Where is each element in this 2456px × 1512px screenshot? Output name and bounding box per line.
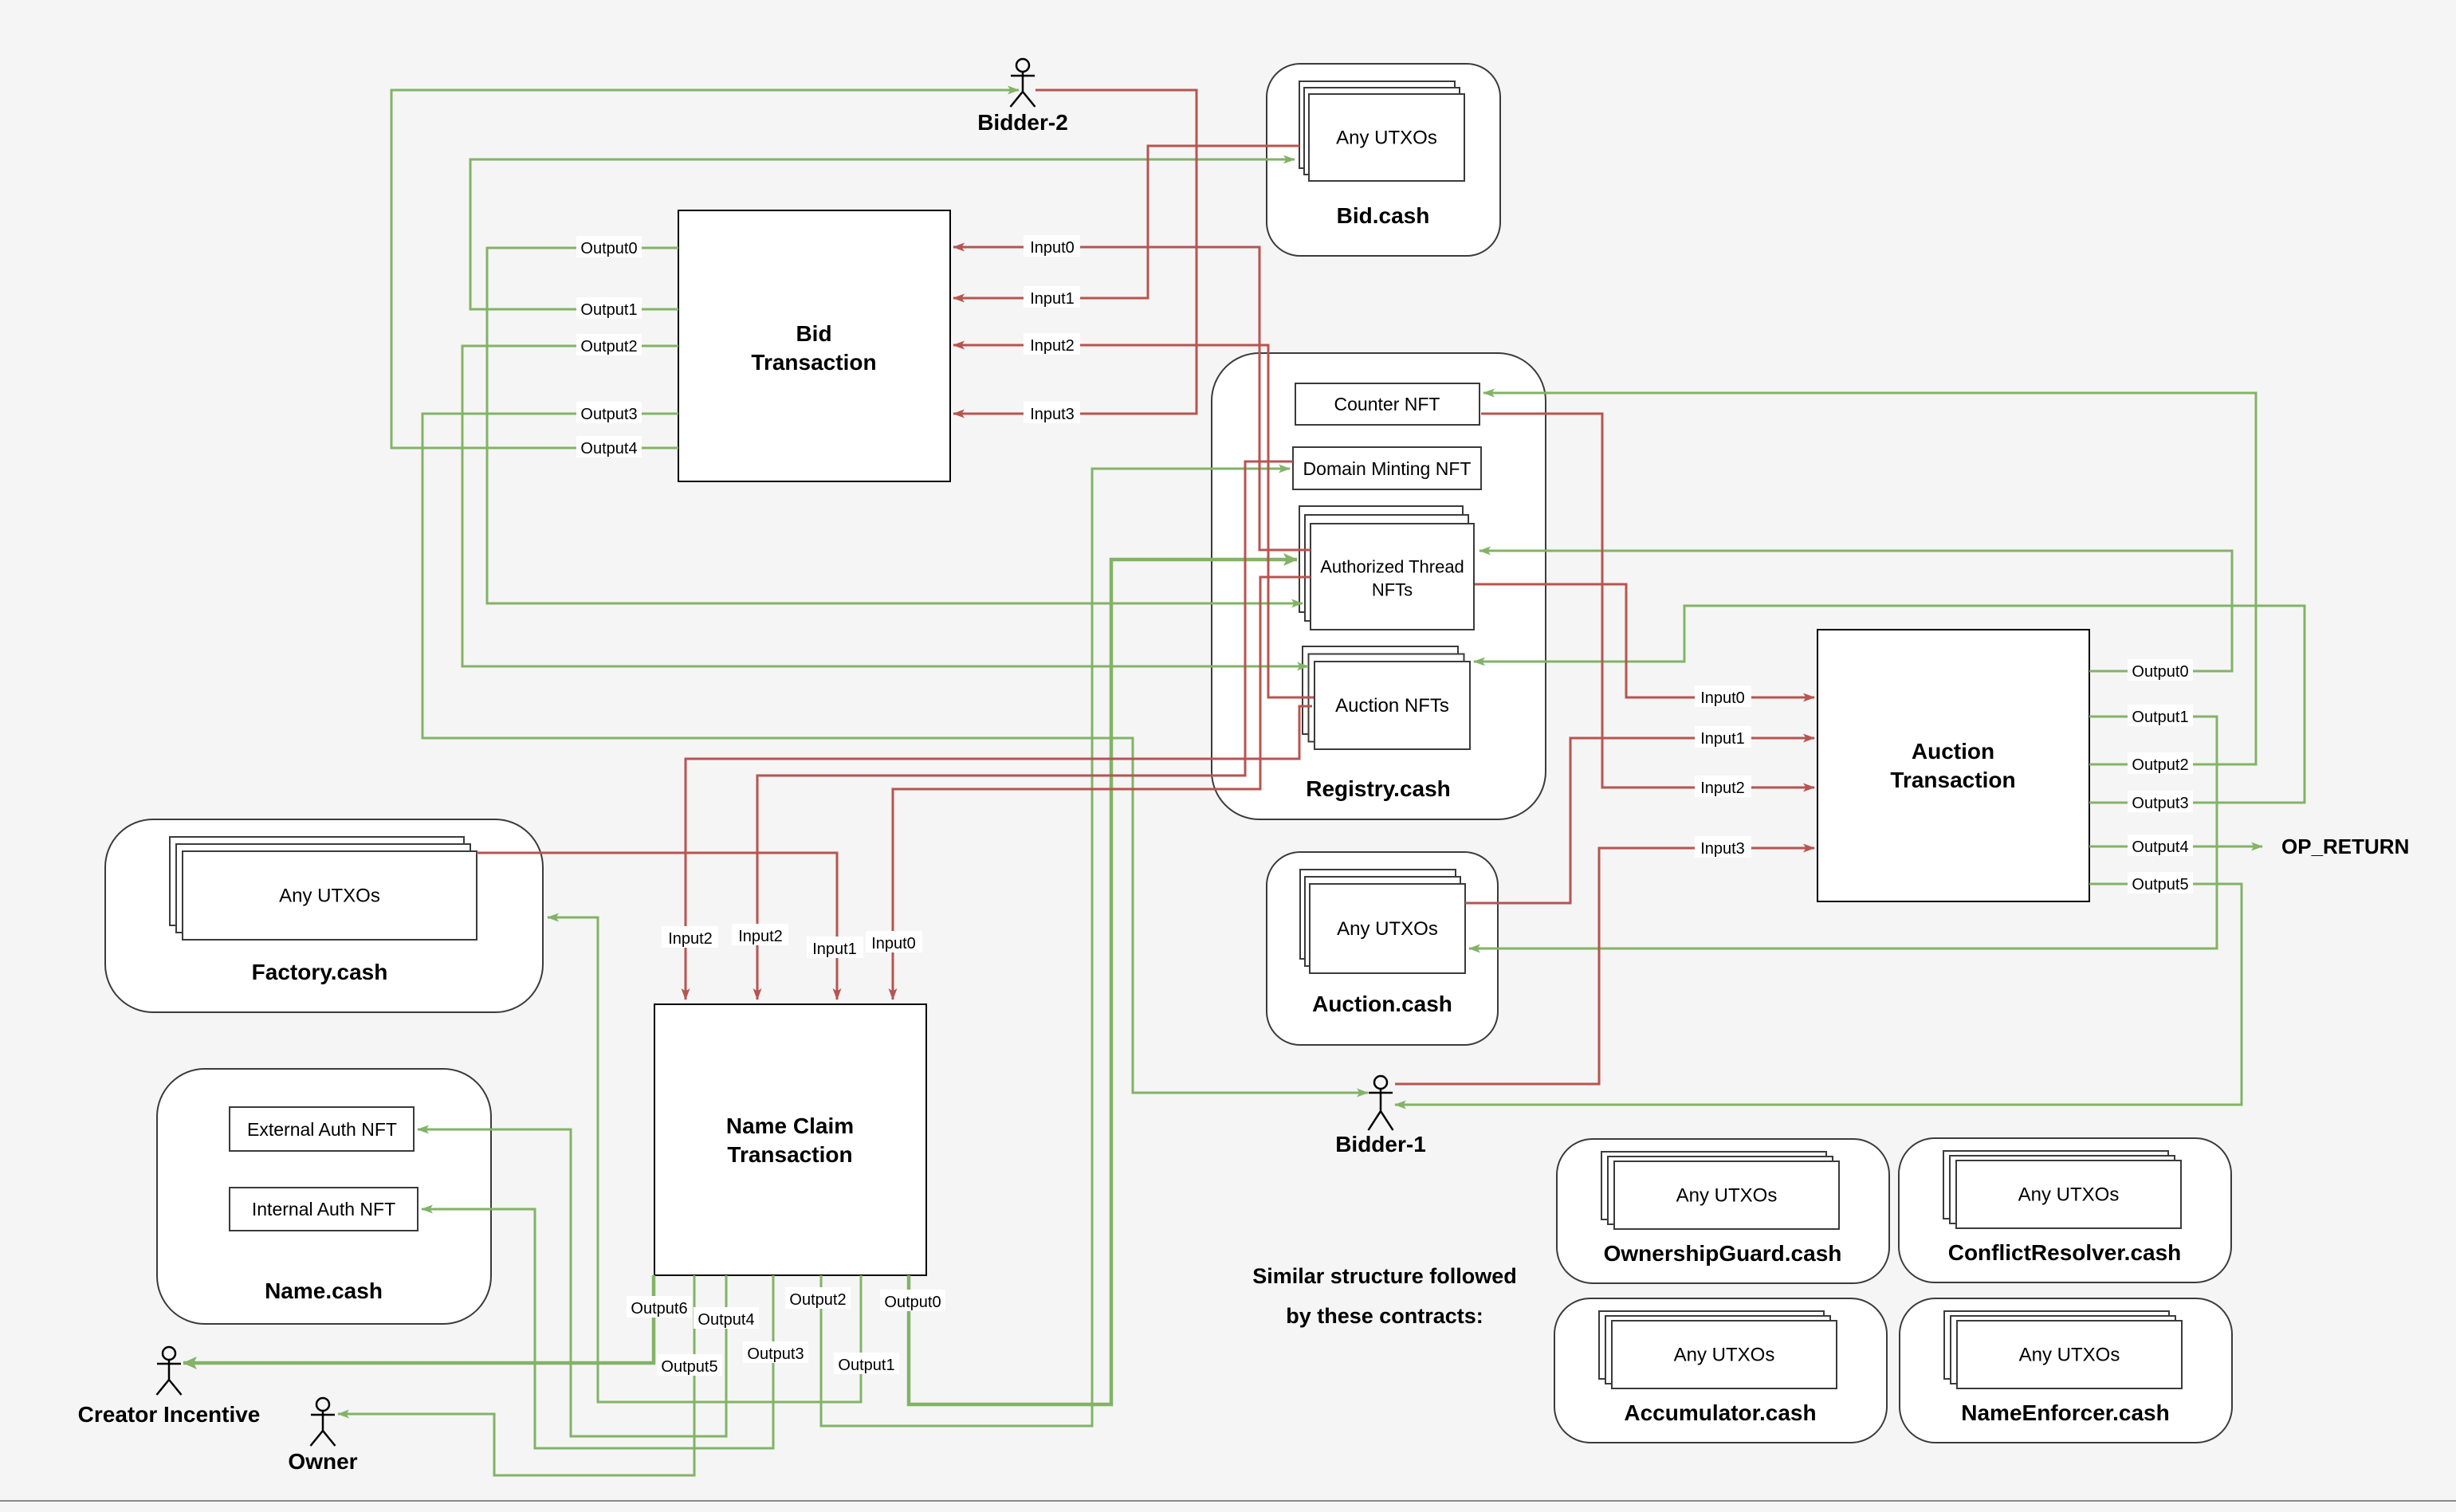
svg-text:Any UTXOs: Any UTXOs bbox=[2019, 1345, 2120, 1366]
wire red Bidder-2 to Bid Input3 bbox=[953, 90, 1197, 414]
container ConflictResolver.cash bbox=[1899, 1138, 2231, 1282]
svg-text:Output5: Output5 bbox=[2132, 876, 2188, 893]
svg-text:Output4: Output4 bbox=[580, 440, 637, 458]
svg-text:NFTs: NFTs bbox=[1372, 580, 1413, 600]
svg-text:Similar structure followed: Similar structure followed bbox=[1252, 1264, 1517, 1288]
card stack Any UTXOs (Auction.cash) bbox=[1300, 870, 1465, 973]
wire red Auction NFTs to NameClaim Input2 bbox=[686, 706, 1312, 999]
svg-text:Input3: Input3 bbox=[1700, 840, 1745, 858]
svg-text:ConflictResolver.cash: ConflictResolver.cash bbox=[1948, 1240, 2182, 1265]
container Name.cash bbox=[157, 1069, 491, 1324]
box Counter NFT bbox=[1295, 383, 1479, 425]
label NameClaim Output1 bbox=[834, 1353, 899, 1374]
svg-text:Input3: Input3 bbox=[1030, 406, 1075, 423]
actor Bidder-1 bbox=[1369, 1076, 1393, 1130]
wire red Domain Minting NFT to NameClaim Input2 bbox=[757, 461, 1293, 999]
svg-text:Output2: Output2 bbox=[789, 1291, 846, 1309]
wire green NameClaim Output5 to Owner bbox=[338, 1275, 694, 1475]
box Domain Minting NFT bbox=[1293, 447, 1481, 489]
svg-text:Registry.cash: Registry.cash bbox=[1306, 776, 1451, 801]
svg-text:Input0: Input0 bbox=[1030, 239, 1075, 257]
svg-text:Auction NFTs: Auction NFTs bbox=[1335, 695, 1449, 717]
svg-text:Output1: Output1 bbox=[838, 1357, 894, 1374]
label Bidder-1 bbox=[1335, 1132, 1426, 1157]
label Auction Input1 bbox=[1695, 726, 1751, 748]
svg-text:Output3: Output3 bbox=[580, 406, 637, 423]
label Bid Input0 bbox=[1024, 235, 1080, 257]
label NameClaim Input2 (a) bbox=[662, 926, 718, 948]
wire green Auction Output4 to OP_RETURN bbox=[2089, 846, 2262, 848]
label Bid Output0 bbox=[576, 236, 642, 257]
svg-text:Name Claim: Name Claim bbox=[726, 1113, 854, 1138]
label OP_RETURN bbox=[2281, 835, 2409, 858]
wire green Auction Output2 to Counter NFT bbox=[1483, 393, 2256, 764]
wire red Auction NFTs to Bid Input2 bbox=[953, 345, 1314, 697]
wire red Authorized Thread NFTs to Auction Input0 bbox=[1475, 584, 1814, 697]
svg-text:Bidder-1: Bidder-1 bbox=[1335, 1132, 1426, 1157]
label Bid Output1 bbox=[576, 297, 642, 319]
svg-text:Any UTXOs: Any UTXOs bbox=[1336, 128, 1437, 149]
svg-text:Any UTXOs: Any UTXOs bbox=[279, 886, 380, 907]
wire green Bid Output4 to Bidder-2 bbox=[391, 90, 1019, 448]
wire green NameClaim Output1 to Factory.cash bbox=[548, 917, 861, 1402]
label Bid Output2 bbox=[576, 334, 642, 355]
svg-text:Name.cash: Name.cash bbox=[265, 1278, 383, 1303]
actor Creator Incentive bbox=[157, 1347, 182, 1395]
svg-text:Authorized Thread: Authorized Thread bbox=[1320, 557, 1464, 577]
label NameClaim Output2 bbox=[785, 1287, 851, 1309]
label NameClaim Output4 bbox=[694, 1307, 759, 1329]
svg-text:Domain Minting NFT: Domain Minting NFT bbox=[1303, 458, 1472, 479]
actor Owner bbox=[311, 1398, 336, 1446]
svg-text:Accumulator.cash: Accumulator.cash bbox=[1624, 1400, 1816, 1425]
svg-text:Transaction: Transaction bbox=[1890, 768, 2015, 792]
wire green NameClaim Output4 to External Auth NFT bbox=[418, 1129, 726, 1436]
svg-text:Output4: Output4 bbox=[698, 1311, 754, 1329]
svg-text:Internal Auth NFT: Internal Auth NFT bbox=[252, 1199, 395, 1219]
label NameClaim Input0 bbox=[866, 931, 922, 952]
wire green Bid Output2 to Auction NFTs bbox=[462, 346, 1308, 666]
card stack Any UTXOs (NameEnforcer.cash) bbox=[1944, 1311, 2182, 1388]
wire green Bid Output3 to Bidder-1 bbox=[422, 414, 1368, 1093]
svg-text:Output2: Output2 bbox=[580, 338, 637, 355]
svg-text:Input1: Input1 bbox=[1030, 290, 1075, 308]
wire red Bid.cash UTXOs to Bid Input1 bbox=[953, 146, 1299, 298]
svg-text:Auction.cash: Auction.cash bbox=[1312, 992, 1452, 1016]
card stack Auction NFTs bbox=[1303, 646, 1470, 749]
svg-text:Output0: Output0 bbox=[580, 240, 637, 257]
actor Bidder-2 bbox=[1011, 59, 1035, 107]
container NameEnforcer.cash bbox=[1900, 1298, 2232, 1443]
svg-text:Output6: Output6 bbox=[631, 1300, 687, 1318]
label Auction Input2 bbox=[1695, 776, 1751, 797]
card stack Any UTXOs (Accumulator.cash) bbox=[1599, 1311, 1837, 1388]
label Auction Output1 bbox=[2128, 705, 2193, 726]
label Owner bbox=[288, 1449, 357, 1474]
wire green NameClaim Output6 to Creator Incentive bbox=[183, 1275, 654, 1363]
svg-text:OwnershipGuard.cash: OwnershipGuard.cash bbox=[1604, 1241, 1842, 1266]
label NameClaim Input1 bbox=[807, 937, 863, 958]
label Auction Output3 bbox=[2128, 791, 2193, 812]
svg-text:Transaction: Transaction bbox=[751, 350, 876, 375]
wire green Auction Output5 to Bidder-1 bbox=[1395, 884, 2242, 1105]
label Auction Output0 bbox=[2128, 659, 2193, 681]
svg-text:Output5: Output5 bbox=[661, 1358, 717, 1376]
svg-text:by these contracts:: by these contracts: bbox=[1286, 1304, 1483, 1328]
wire green NameClaim Output2 to Domain Minting NFT bbox=[821, 469, 1290, 1426]
wire red Counter NFT to Auction Input2 bbox=[1481, 414, 1814, 787]
label NameClaim Input2 (b) bbox=[732, 924, 788, 945]
svg-text:OP_RETURN: OP_RETURN bbox=[2281, 835, 2409, 858]
wire green Auction Output0 to Authorized Thread NFTs bbox=[1479, 551, 2232, 671]
container OwnershipGuard.cash bbox=[1557, 1139, 1889, 1283]
svg-text:Any UTXOs: Any UTXOs bbox=[1676, 1185, 1778, 1207]
card stack Authorized Thread NFTs bbox=[1299, 506, 1474, 630]
label Auction Output2 bbox=[2128, 752, 2193, 774]
label Auction Output5 bbox=[2128, 872, 2193, 893]
wire red Factory.cash UTXOs to NameClaim Input1 bbox=[477, 853, 837, 999]
svg-text:Output1: Output1 bbox=[2132, 709, 2188, 726]
label NameClaim Output0 bbox=[880, 1290, 945, 1311]
wire red Bidder-1 to Auction Input3 bbox=[1395, 848, 1814, 1084]
card stack Any UTXOs (Bid.cash) bbox=[1299, 81, 1464, 181]
container Registry.cash bbox=[1212, 353, 1546, 819]
card stack Any UTXOs (ConflictResolver.cash) bbox=[1943, 1151, 2181, 1228]
svg-text:Output2: Output2 bbox=[2132, 756, 2188, 774]
svg-text:Counter NFT: Counter NFT bbox=[1334, 394, 1440, 414]
svg-text:Input2: Input2 bbox=[1700, 780, 1745, 797]
wire green NameClaim Output0 to Authorized Thread NFTs bbox=[909, 560, 1297, 1404]
container Bid.cash bbox=[1267, 64, 1500, 256]
label NameClaim Output3 bbox=[743, 1341, 808, 1363]
box Auction Transaction bbox=[1817, 630, 2089, 901]
svg-text:Output4: Output4 bbox=[2132, 838, 2188, 856]
label NameClaim Output6 bbox=[627, 1296, 692, 1318]
label Auction Input3 bbox=[1695, 836, 1751, 858]
svg-text:Input0: Input0 bbox=[871, 935, 916, 952]
svg-text:Input1: Input1 bbox=[812, 941, 857, 958]
label Bid Output3 bbox=[576, 402, 642, 423]
svg-text:Bidder-2: Bidder-2 bbox=[977, 110, 1068, 135]
svg-text:Output3: Output3 bbox=[2132, 795, 2188, 812]
svg-text:Any UTXOs: Any UTXOs bbox=[1674, 1345, 1775, 1366]
svg-text:Output0: Output0 bbox=[2132, 663, 2188, 681]
svg-text:Input2: Input2 bbox=[1030, 337, 1075, 355]
svg-text:Input0: Input0 bbox=[1700, 689, 1745, 707]
box Internal Auth NFT bbox=[230, 1188, 418, 1231]
label Auction Input0 bbox=[1695, 685, 1751, 707]
svg-text:Factory.cash: Factory.cash bbox=[252, 960, 388, 984]
svg-text:Any UTXOs: Any UTXOs bbox=[2018, 1184, 2120, 1206]
wire green Bid Output0 to Authorized Thread NFTs bbox=[487, 248, 1303, 603]
label Creator Incentive bbox=[78, 1402, 261, 1427]
svg-text:Creator Incentive: Creator Incentive bbox=[78, 1402, 261, 1427]
svg-text:NameEnforcer.cash: NameEnforcer.cash bbox=[1961, 1400, 2169, 1425]
container Factory.cash bbox=[105, 819, 543, 1012]
wire red Auction.cash UTXOs to Auction Input1 bbox=[1465, 738, 1814, 903]
svg-text:Auction: Auction bbox=[1912, 739, 1994, 764]
page bottom edge bbox=[0, 1500, 2456, 1502]
svg-text:Owner: Owner bbox=[288, 1449, 357, 1474]
box External Auth NFT bbox=[230, 1107, 414, 1151]
box Bid Transaction bbox=[678, 210, 950, 481]
box Name Claim Transaction bbox=[654, 1004, 926, 1275]
wire green Auction Output3 to Auction NFTs bbox=[1474, 606, 2305, 803]
wire green Bid Output1 to Bid.cash UTXOs bbox=[470, 159, 1295, 309]
label Bid Output4 bbox=[576, 436, 642, 458]
card stack Any UTXOs (OwnershipGuard.cash) bbox=[1601, 1152, 1839, 1229]
container Auction.cash bbox=[1267, 852, 1498, 1045]
note Similar structure bbox=[1252, 1264, 1517, 1328]
svg-text:Bid.cash: Bid.cash bbox=[1337, 203, 1430, 228]
wire green NameClaim Output3 to Internal Auth NFT bbox=[422, 1209, 773, 1448]
label Bid Input3 bbox=[1024, 402, 1080, 423]
svg-text:Input1: Input1 bbox=[1700, 730, 1745, 748]
label Auction Output4 bbox=[2128, 835, 2193, 856]
svg-text:Bid: Bid bbox=[796, 321, 831, 346]
svg-text:Input2: Input2 bbox=[668, 930, 713, 948]
svg-text:Any UTXOs: Any UTXOs bbox=[1337, 918, 1438, 940]
label Bid Input1 bbox=[1024, 286, 1080, 308]
wire red Authorized Thread NFTs to NameClaim Input0 bbox=[893, 577, 1311, 999]
label Bid Input2 bbox=[1024, 333, 1080, 355]
label NameClaim Output5 bbox=[657, 1354, 722, 1376]
svg-text:External Auth NFT: External Auth NFT bbox=[247, 1119, 397, 1140]
wire green Auction Output1 to Auction.cash UTXOs bbox=[1469, 717, 2217, 948]
svg-text:Output1: Output1 bbox=[580, 301, 637, 319]
svg-text:Input2: Input2 bbox=[738, 928, 783, 945]
wire red Authorized Thread NFTs to Bid Input0 bbox=[953, 247, 1311, 550]
svg-text:Output3: Output3 bbox=[747, 1345, 804, 1363]
card stack Any UTXOs (Factory.cash) bbox=[170, 837, 477, 940]
label Bidder-2 bbox=[977, 110, 1068, 135]
svg-text:Output0: Output0 bbox=[884, 1294, 941, 1311]
svg-text:Transaction: Transaction bbox=[727, 1142, 852, 1167]
container Accumulator.cash bbox=[1554, 1298, 1887, 1443]
